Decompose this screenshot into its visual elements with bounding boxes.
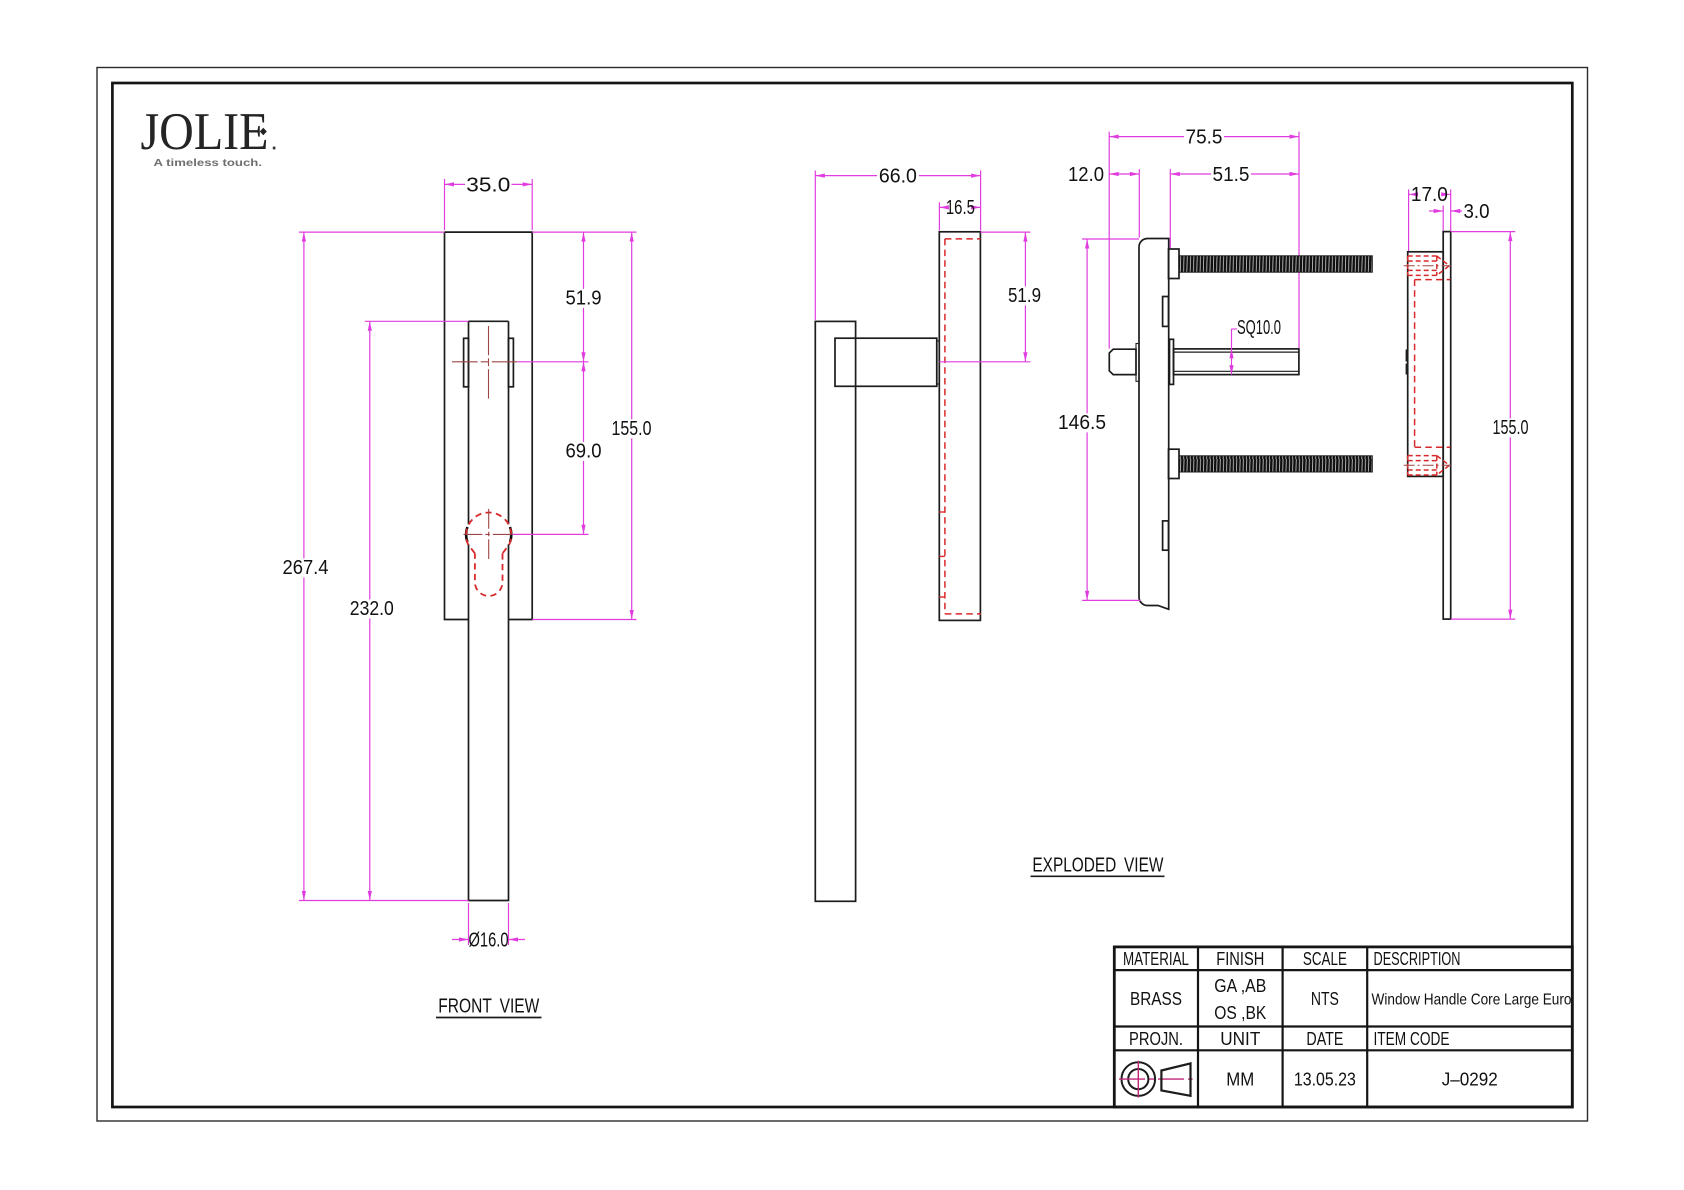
svg-text:155.0: 155.0 bbox=[1493, 417, 1529, 439]
title block header texts bbox=[1123, 949, 1461, 969]
dim SQ10.0 (spindle square) bbox=[1229, 317, 1281, 375]
exploded lower screw threaded rod bbox=[1179, 456, 1372, 472]
svg-text:75.5: 75.5 bbox=[1186, 126, 1223, 148]
exploded square spindle bar bbox=[1174, 349, 1299, 375]
svg-text:3.0: 3.0 bbox=[1464, 201, 1490, 223]
dim 146.5 (plate height) bbox=[1056, 239, 1141, 600]
exploded upper clip tab bbox=[1163, 297, 1169, 327]
front view spindle clip right tab bbox=[509, 338, 514, 387]
logo diamond bbox=[260, 128, 267, 136]
side view handle neck bbox=[835, 338, 937, 386]
side view backplate bbox=[939, 232, 980, 621]
exploded wall plate bbox=[1443, 232, 1451, 619]
svg-text:DATE: DATE bbox=[1306, 1029, 1343, 1049]
projection symbol centerlines bbox=[1119, 1061, 1193, 1098]
svg-text:SCALE: SCALE bbox=[1303, 949, 1347, 969]
svg-text:DESCRIPTION: DESCRIPTION bbox=[1374, 949, 1461, 969]
side view handle bar bbox=[815, 321, 855, 901]
svg-text:UNIT: UNIT bbox=[1220, 1029, 1260, 1049]
exploded spindle head bbox=[1109, 349, 1136, 374]
svg-text:13.05.23: 13.05.23 bbox=[1294, 1070, 1356, 1090]
front view handle bar bbox=[469, 321, 509, 900]
svg-text:A timeless touch.: A timeless touch. bbox=[154, 158, 263, 169]
side view spindle washer bbox=[937, 341, 940, 384]
dim 16.5 (backplate thickness) bbox=[939, 197, 980, 230]
exploded spindle washer right bbox=[1170, 339, 1174, 384]
svg-text:51.9: 51.9 bbox=[1008, 285, 1041, 307]
svg-text:PROJN.: PROJN. bbox=[1129, 1029, 1183, 1049]
EXPLODED VIEW label bbox=[1031, 855, 1165, 877]
svg-text:Window Handle Core Large Euro: Window Handle Core Large Euro bbox=[1372, 992, 1572, 1009]
dim 35.0 (backplate width) bbox=[445, 174, 533, 230]
exploded bottom screw hidden hole bbox=[1404, 456, 1451, 475]
svg-text:OS ,BK: OS ,BK bbox=[1214, 1003, 1266, 1023]
svg-text:16.5: 16.5 bbox=[946, 197, 975, 219]
exploded top screw hidden hole bbox=[1404, 256, 1451, 275]
svg-text:51.9: 51.9 bbox=[566, 288, 602, 310]
dim 51.9 (top to spindle) bbox=[518, 232, 604, 534]
dim 232.0 (handle length) bbox=[348, 321, 469, 900]
dim 155.0 (backplate height) bbox=[532, 232, 653, 619]
exploded lower screw boss bbox=[1169, 449, 1180, 478]
outer border frame bbox=[97, 68, 1588, 1122]
exploded lower clip tab bbox=[1163, 521, 1169, 550]
projection symbol cone bbox=[1161, 1063, 1190, 1095]
svg-text:232.0: 232.0 bbox=[350, 598, 394, 620]
side view keyhole hidden edge ticks bbox=[939, 512, 945, 597]
dim 51.9 side view bbox=[939, 232, 1043, 362]
svg-text:FRONT VIEW: FRONT VIEW bbox=[438, 996, 539, 1018]
exploded spindle collar bbox=[1136, 344, 1139, 382]
svg-text:35.0: 35.0 bbox=[466, 174, 510, 196]
front view keyhole centerline cross bbox=[464, 509, 512, 559]
dim 69.0 (spindle to keyhole) bbox=[513, 441, 604, 535]
svg-text:MM: MM bbox=[1226, 1070, 1254, 1090]
dim 17.0 (gasket+plate) bbox=[1409, 184, 1451, 251]
svg-text:155.0: 155.0 bbox=[612, 418, 652, 440]
FRONT VIEW label bbox=[436, 996, 542, 1018]
exploded gasket spindle hole marks bbox=[1406, 350, 1408, 375]
dim 66.0 (overall depth) bbox=[815, 165, 980, 320]
side view hidden recess dashed bbox=[945, 239, 981, 614]
svg-text:267.4: 267.4 bbox=[283, 557, 329, 579]
dim 12.0 (spindle head) bbox=[1068, 164, 1139, 238]
title block row3 texts bbox=[1129, 1029, 1450, 1049]
svg-text:66.0: 66.0 bbox=[879, 165, 917, 187]
front view keyhole visible arcs bbox=[466, 527, 511, 542]
JOLIE logo wordmark bbox=[141, 103, 269, 161]
svg-text:Ø16.0: Ø16.0 bbox=[469, 929, 509, 951]
svg-text:FINISH: FINISH bbox=[1216, 949, 1264, 969]
dim 155.0 exploded (wall plate height) bbox=[1451, 232, 1531, 619]
logo trademark dot bbox=[273, 147, 276, 150]
svg-text:GA ,AB: GA ,AB bbox=[1214, 976, 1266, 996]
title block row lines bbox=[1114, 970, 1572, 1050]
exploded gasket bbox=[1408, 252, 1444, 477]
dim reference line at backplate top bbox=[299, 231, 637, 233]
exploded gasket hidden recess bbox=[1415, 280, 1451, 448]
exploded top screw boss bbox=[1169, 249, 1180, 279]
front view keyhole hidden outline (euro profile) bbox=[466, 512, 511, 596]
inner border frame bbox=[112, 83, 1572, 1107]
dim 267.4 (overall height) bbox=[281, 232, 331, 900]
front view spindle centerline cross bbox=[452, 326, 518, 399]
exploded top screw threaded rod bbox=[1179, 256, 1372, 272]
svg-text:J–0292: J–0292 bbox=[1442, 1070, 1498, 1090]
title block outer box bbox=[1114, 947, 1572, 1107]
dim Ø16.0 (handle diameter) bbox=[452, 903, 525, 951]
front view spindle clip left tab bbox=[464, 338, 469, 387]
front view backplate bbox=[445, 232, 533, 619]
dim 3.0 (wall plate thickness) bbox=[1429, 201, 1490, 231]
svg-text:NTS: NTS bbox=[1311, 989, 1339, 1009]
svg-text:51.5: 51.5 bbox=[1213, 164, 1250, 186]
logo tagline bbox=[154, 158, 263, 169]
title block row4 texts bbox=[1226, 1070, 1497, 1090]
dim bottom reference line (handle bottom) bbox=[299, 900, 469, 902]
svg-text:BRASS: BRASS bbox=[1130, 989, 1182, 1009]
svg-text:146.5: 146.5 bbox=[1058, 412, 1106, 434]
svg-text:EXPLODED VIEW: EXPLODED VIEW bbox=[1032, 855, 1163, 877]
exploded handle plate side profile bbox=[1139, 239, 1169, 610]
title block column lines bbox=[1198, 947, 1367, 1107]
dim 51.5 (spindle length) bbox=[1170, 164, 1299, 248]
projection symbol circles bbox=[1122, 1062, 1156, 1096]
dim 75.5 (screw length) bbox=[1109, 126, 1299, 348]
svg-text:JOLIE: JOLIE bbox=[141, 103, 269, 161]
svg-text:ITEM CODE: ITEM CODE bbox=[1374, 1029, 1450, 1049]
svg-text:12.0: 12.0 bbox=[1068, 164, 1104, 186]
svg-text:69.0: 69.0 bbox=[566, 441, 602, 463]
svg-text:17.0: 17.0 bbox=[1411, 184, 1448, 206]
svg-text:MATERIAL: MATERIAL bbox=[1123, 949, 1189, 969]
title block row2 texts bbox=[1130, 976, 1572, 1023]
svg-text:SQ10.0: SQ10.0 bbox=[1237, 317, 1281, 339]
